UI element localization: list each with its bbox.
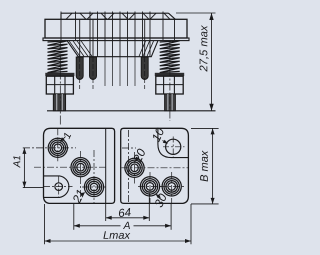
left mounting hole [55,183,63,191]
contact 20 [125,158,144,177]
label 20 [134,149,145,164]
right shell outline [121,128,189,203]
contact center lines in body [61,12,175,57]
hidden contact tails [105,57,135,86]
right hex nut [156,76,183,94]
dimension A [74,204,171,230]
left mounting boss [44,176,69,198]
left shell outline [44,128,115,203]
right jackscrew spring [160,41,180,73]
pin block outline [67,41,158,57]
connector body (side view) [45,19,187,38]
right threaded stud [165,94,176,111]
left hole center cross [44,177,73,198]
right mounting boss [158,128,189,157]
right shell inner dashed line [128,130,130,203]
dimension 64 [106,193,150,221]
contact pins [76,57,148,80]
mounting panel line [47,110,216,112]
dimension 27,5 max [176,13,216,111]
contact center lines [23,128,188,203]
right spring washer [155,73,184,76]
right hole center cross [163,137,185,158]
mounting flange plate [43,38,189,41]
label 21 [73,190,85,204]
label 30 [155,194,166,208]
left shell inner edge [105,128,107,203]
pin center lines [80,57,145,89]
contact row2 left [71,158,90,177]
left threaded stud [53,94,65,111]
contact teeth trapezoids [66,13,170,19]
right stud center line [169,41,171,122]
contact 21 [84,177,103,196]
insulator top strip outline [61,13,175,19]
pin columns [80,19,145,57]
dimension A1 [13,148,43,188]
right mounting hole [166,139,181,154]
left jackscrew spring [48,41,68,73]
label 10 [153,128,168,144]
dimension L max [45,204,192,244]
block hatching [69,41,154,57]
dimension B max [191,128,219,204]
left stud center line [59,41,61,127]
label 1 [60,133,71,143]
left spring washer [45,73,74,76]
contact 1 [48,138,67,157]
contact 10 row [162,177,181,196]
left hex nut [46,76,73,94]
contact 30 [140,177,159,196]
